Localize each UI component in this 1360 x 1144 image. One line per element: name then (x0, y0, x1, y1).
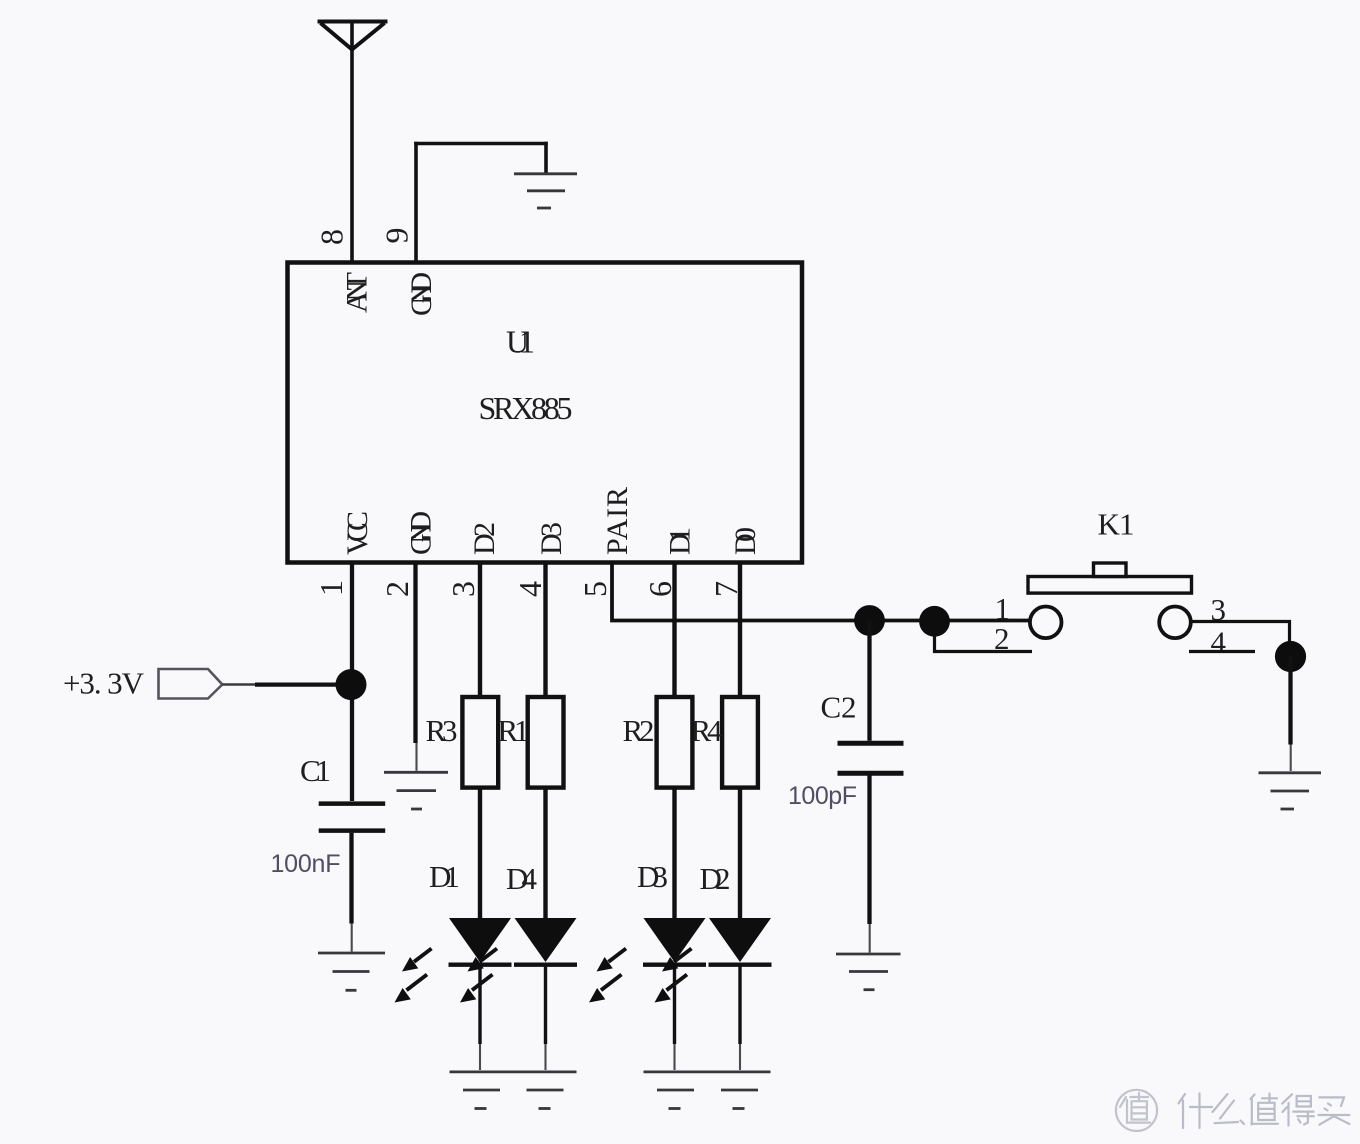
wire pin 9 GND to ground (414, 142, 548, 261)
svg-text:100nF: 100nF (271, 850, 341, 878)
svg-text:2: 2 (379, 581, 415, 597)
ground (D2) (721, 1090, 758, 1109)
switch K1 button bar (1028, 577, 1192, 594)
wire pin 4 to R1 (543, 563, 547, 700)
svg-text:4: 4 (512, 581, 548, 597)
svg-text:SRX885: SRX885 (479, 390, 573, 426)
wire R4 to LED D2 (738, 788, 742, 919)
wire R3 to LED D1 (478, 788, 482, 919)
LED D1 (395, 918, 512, 1003)
wire antenna to pin 8 ANT (350, 20, 354, 261)
svg-text:3: 3 (445, 581, 481, 597)
watermark text (1179, 1094, 1350, 1129)
wire C2 to ground (867, 776, 871, 925)
svg-text:D1: D1 (429, 859, 460, 894)
wire node to C2 (867, 621, 871, 741)
resistor R1 (528, 697, 564, 788)
wire K1 pin 2 stub (935, 637, 1033, 652)
wire pin 3 to R3 (478, 563, 482, 700)
watermark logo circle (1116, 1090, 1157, 1131)
ground (pin 2) (384, 772, 448, 809)
wire K1 pin 3 (1191, 622, 1290, 658)
wire K1 node to ground (1288, 657, 1292, 745)
ground (top, pin 9) (514, 174, 577, 208)
svg-text:D3: D3 (637, 859, 668, 894)
svg-text:4: 4 (1211, 625, 1227, 660)
watermark logo glyph (1120, 1093, 1150, 1123)
svg-text:1: 1 (313, 580, 349, 596)
svg-text:R2: R2 (623, 713, 655, 748)
capacitor C2 (838, 743, 904, 773)
LED D4 (460, 918, 577, 1003)
wire D2 to ground (738, 964, 741, 1044)
ground (D4) (527, 1090, 564, 1109)
svg-text:U1: U1 (506, 324, 535, 360)
wire C1 to ground (349, 833, 353, 924)
antenna E1 (318, 22, 388, 50)
wire K1 pin 4 stub (1189, 650, 1255, 653)
svg-text:D3: D3 (535, 522, 568, 555)
node junction dot (K1 right) (1275, 641, 1306, 672)
svg-text:D1: D1 (664, 527, 697, 555)
node junction VCC dot (336, 669, 367, 700)
svg-text:R4: R4 (691, 713, 724, 748)
ground (C1) (318, 953, 385, 990)
resistor R4 (722, 697, 758, 788)
svg-text:D0: D0 (729, 527, 762, 555)
svg-text:D2: D2 (468, 522, 501, 555)
K1 contact circle left (1030, 607, 1062, 639)
svg-text:D2: D2 (700, 861, 731, 896)
svg-text:GND: GND (405, 272, 438, 316)
wire pin 6 to R2 (672, 563, 676, 700)
switch K1 actuator (1094, 563, 1127, 577)
svg-text:9: 9 (379, 228, 415, 244)
wire D1 to ground (478, 964, 481, 1044)
ground (K1) (1259, 773, 1322, 809)
node junction dot (K1 tap) (919, 606, 950, 637)
power flag +3.3V (159, 669, 223, 699)
svg-text:R3: R3 (426, 713, 458, 748)
svg-text:8: 8 (314, 229, 350, 245)
svg-text:100pF: 100pF (788, 782, 857, 810)
svg-text:D4: D4 (506, 861, 538, 896)
LED D3 (589, 918, 706, 1003)
wire pin 1 VCC down to C1 (350, 563, 354, 802)
svg-text:+3. 3V: +3. 3V (63, 666, 145, 701)
wire R1 to LED D4 (543, 788, 547, 919)
svg-text:K1: K1 (1098, 507, 1135, 542)
svg-text:ANT: ANT (341, 272, 374, 313)
svg-text:PAIR: PAIR (601, 487, 634, 555)
node junction dot (C2 tap) (854, 605, 885, 636)
K1 contact circle right (1159, 607, 1191, 639)
wire D4 to ground (544, 964, 547, 1044)
svg-text:R1: R1 (498, 713, 530, 748)
capacitor C1 (319, 804, 386, 831)
svg-text:GND: GND (405, 511, 438, 555)
wire flag to VCC node (222, 683, 256, 686)
svg-text:C2: C2 (821, 690, 857, 725)
wire pin 2 GND down (413, 563, 417, 744)
ground (D1) (450, 1072, 577, 1109)
wire R2 to LED D3 (672, 788, 676, 919)
wire D3 to ground (673, 964, 676, 1044)
svg-text:C1: C1 (300, 753, 331, 788)
resistor R2 (657, 697, 693, 788)
wire pin 7 to R4 (738, 563, 742, 700)
IC U1 box (288, 263, 803, 563)
wire pin 5 PAIR down and right (bus) (612, 563, 1031, 621)
LED D2 (655, 918, 772, 1003)
resistor R3 (462, 697, 498, 788)
ground (C2) (836, 954, 901, 990)
svg-text:VCC: VCC (341, 511, 374, 555)
svg-text:5: 5 (577, 581, 613, 597)
ground (D3) (644, 1072, 771, 1109)
